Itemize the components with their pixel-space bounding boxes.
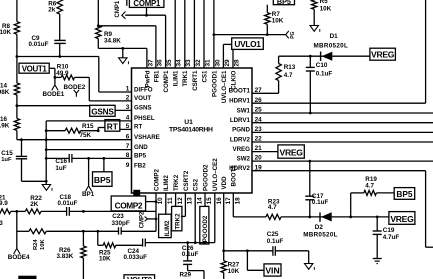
svg-text:U1: U1 <box>184 119 193 126</box>
svg-text:32: 32 <box>195 59 202 67</box>
svg-text:49.9: 49.9 <box>0 200 8 207</box>
svg-text:SW2: SW2 <box>237 155 251 162</box>
svg-text:BODE1: BODE1 <box>43 91 65 98</box>
svg-text:21: 21 <box>255 145 263 152</box>
svg-text:GSNS: GSNS <box>134 105 152 112</box>
svg-text:34.8K: 34.8K <box>104 37 121 44</box>
svg-text:ILIM1: ILIM1 <box>173 70 180 86</box>
svg-text:CSRT2: CSRT2 <box>183 170 190 191</box>
svg-text:9: 9 <box>126 162 130 169</box>
svg-text:16.9K: 16.9K <box>0 122 10 129</box>
svg-text:13: 13 <box>187 197 194 205</box>
svg-text:ILIM2: ILIM2 <box>164 220 171 236</box>
svg-text:CLKIO: CLKIO <box>230 70 237 89</box>
svg-text:1uF: 1uF <box>1 157 12 163</box>
svg-text:PHSEL: PHSEL <box>134 115 155 122</box>
svg-text:20: 20 <box>255 155 263 162</box>
svg-text:CSRT1: CSRT1 <box>192 70 199 91</box>
svg-text:18: 18 <box>235 197 242 205</box>
svg-text:0.1uF: 0.1uF <box>312 199 329 206</box>
svg-text:0.01uF: 0.01uF <box>58 200 78 207</box>
svg-text:VDD: VDD <box>221 176 228 190</box>
svg-text:15: 15 <box>206 197 213 205</box>
svg-text:VSHARE: VSHARE <box>134 134 160 141</box>
svg-text:2: 2 <box>126 95 130 102</box>
svg-text:C10: C10 <box>316 62 328 69</box>
svg-text:37: 37 <box>147 59 154 67</box>
svg-text:TRK1: TRK1 <box>182 70 189 87</box>
svg-text:19: 19 <box>255 164 263 171</box>
svg-text:12: 12 <box>177 197 184 205</box>
svg-text:23: 23 <box>255 126 263 133</box>
svg-text:3.83K: 3.83K <box>57 253 74 260</box>
svg-text:11: 11 <box>167 197 174 204</box>
svg-text:BP1: BP1 <box>82 191 95 198</box>
svg-text:0.1uF: 0.1uF <box>267 238 284 245</box>
svg-text:BOOT2: BOOT2 <box>231 165 238 187</box>
svg-text:CMP2: CMP2 <box>140 211 146 228</box>
svg-text:CMP1: CMP1 <box>115 0 121 17</box>
svg-text:VREG: VREG <box>280 148 304 158</box>
svg-text:4.7uF: 4.7uF <box>383 234 400 241</box>
svg-text:GND: GND <box>134 144 148 151</box>
svg-text:0.1uF: 0.1uF <box>316 70 333 77</box>
svg-text:35: 35 <box>166 59 173 67</box>
svg-text:34: 34 <box>176 59 183 67</box>
svg-text:LDRV2: LDRV2 <box>230 136 251 143</box>
svg-text:RT: RT <box>134 124 142 131</box>
svg-text:CS1: CS1 <box>201 70 208 83</box>
svg-text:10K: 10K <box>272 17 284 24</box>
svg-text:PwPd: PwPd <box>144 70 151 87</box>
svg-text:26: 26 <box>255 97 263 104</box>
svg-text:TRK2: TRK2 <box>174 213 181 230</box>
svg-text:4.98K: 4.98K <box>0 89 10 96</box>
svg-text:HDRV1: HDRV1 <box>229 98 250 105</box>
svg-text:D1: D1 <box>330 33 339 40</box>
svg-text:10K: 10K <box>320 6 332 13</box>
svg-text:4.7: 4.7 <box>365 182 374 189</box>
svg-text:10K: 10K <box>99 255 111 262</box>
svg-text:TRK2: TRK2 <box>173 174 180 191</box>
svg-text:0.1uF: 0.1uF <box>182 251 199 258</box>
svg-text:D2: D2 <box>315 224 324 231</box>
svg-text:2K: 2K <box>30 201 39 208</box>
svg-text:2k: 2k <box>48 6 56 13</box>
svg-text:MBR0520L: MBR0520L <box>303 232 338 239</box>
svg-text:3: 3 <box>126 104 130 111</box>
svg-text:BP5: BP5 <box>134 153 147 160</box>
svg-text:COMP1: COMP1 <box>133 0 161 8</box>
svg-text:4.7: 4.7 <box>284 72 293 79</box>
svg-text:31: 31 <box>204 59 211 67</box>
svg-text:R15: R15 <box>82 123 94 130</box>
svg-text:1: 1 <box>126 86 130 93</box>
svg-text:1uF: 1uF <box>55 165 66 172</box>
svg-text:VIN: VIN <box>265 266 279 276</box>
svg-text:VOUT: VOUT <box>134 95 151 102</box>
svg-text:BP5: BP5 <box>396 189 413 199</box>
svg-text:4.7: 4.7 <box>268 204 277 211</box>
svg-text:C15: C15 <box>1 150 13 157</box>
svg-text:FB1: FB1 <box>153 70 160 82</box>
svg-text:VREG: VREG <box>232 146 250 153</box>
svg-text:UVLO–CE1: UVLO–CE1 <box>221 70 228 103</box>
svg-text:33: 33 <box>185 59 192 67</box>
svg-text:14: 14 <box>196 197 203 205</box>
svg-text:10K: 10K <box>40 239 46 250</box>
svg-text:24: 24 <box>255 116 263 123</box>
svg-text:36: 36 <box>156 59 163 67</box>
svg-text:6: 6 <box>126 133 130 140</box>
svg-text:RT: RT <box>107 121 118 131</box>
svg-text:PGOOD2: PGOOD2 <box>202 215 209 242</box>
svg-text:MBR0520L: MBR0520L <box>314 43 349 50</box>
svg-text:PGOOD2: PGOOD2 <box>202 164 209 191</box>
svg-text:C25: C25 <box>267 231 279 238</box>
svg-text:BP5: BP5 <box>94 175 111 185</box>
svg-text:VREG: VREG <box>371 50 395 60</box>
svg-text:COMP2: COMP2 <box>115 201 143 211</box>
svg-text:75K: 75K <box>80 132 92 139</box>
svg-text:330pF: 330pF <box>112 220 130 227</box>
svg-text:VREG: VREG <box>390 214 414 224</box>
svg-text:COMP2: COMP2 <box>153 168 160 191</box>
svg-text:30: 30 <box>214 59 221 67</box>
svg-text:28: 28 <box>233 59 240 67</box>
svg-text:10: 10 <box>157 197 164 205</box>
svg-text:7: 7 <box>126 143 130 150</box>
svg-text:BP5: BP5 <box>277 0 291 6</box>
svg-text:R24: R24 <box>33 239 39 250</box>
svg-text:FB2: FB2 <box>134 163 146 170</box>
svg-text:29: 29 <box>224 59 231 67</box>
svg-text:ILIM2: ILIM2 <box>163 175 170 191</box>
svg-text:5: 5 <box>126 123 130 130</box>
svg-text:49.9: 49.9 <box>56 70 69 77</box>
svg-text:0.033uF: 0.033uF <box>124 254 148 261</box>
svg-text:BODE4: BODE4 <box>8 254 30 261</box>
svg-text:UVLO–CE2: UVLO–CE2 <box>212 158 219 191</box>
svg-text:27: 27 <box>255 87 263 94</box>
svg-text:TPS40140RHH: TPS40140RHH <box>169 127 213 134</box>
svg-text:8: 8 <box>126 152 130 159</box>
svg-text:R29: R29 <box>180 272 192 279</box>
svg-text:PG: PG <box>290 31 296 38</box>
svg-text:R5: R5 <box>320 0 329 5</box>
svg-text:COMP1: COMP1 <box>163 70 170 93</box>
svg-text:PGOOD1: PGOOD1 <box>211 70 218 97</box>
svg-text:VOUT1: VOUT1 <box>22 65 48 74</box>
svg-text:16: 16 <box>216 197 223 205</box>
svg-text:4: 4 <box>126 115 130 122</box>
svg-text:BODE2: BODE2 <box>64 84 86 91</box>
svg-text:R13: R13 <box>284 64 296 71</box>
svg-text:10K: 10K <box>0 29 12 36</box>
svg-text:CS2: CS2 <box>193 178 200 191</box>
svg-text:PGND: PGND <box>232 127 250 134</box>
svg-text:SW1: SW1 <box>237 107 251 114</box>
svg-text:25: 25 <box>255 107 263 114</box>
svg-text:22: 22 <box>255 136 263 143</box>
svg-text:LDRV1: LDRV1 <box>230 117 251 124</box>
svg-text:17: 17 <box>225 197 232 205</box>
svg-text:10K: 10K <box>228 268 240 275</box>
svg-text:0.01uF: 0.01uF <box>29 41 49 48</box>
svg-text:GSNS: GSNS <box>91 106 114 116</box>
svg-text:C23: C23 <box>112 213 124 220</box>
svg-text:UVLO1: UVLO1 <box>234 39 261 49</box>
